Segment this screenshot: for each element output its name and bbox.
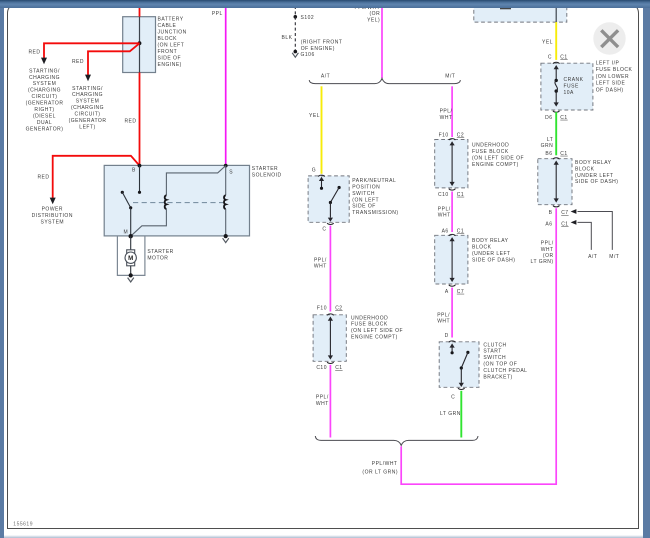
body relay block (M/T) internal double arrow [450,237,455,241]
svg-text:A6: A6 [545,221,552,227]
svg-text:CLUTCH: CLUTCH [483,342,506,348]
svg-text:(UNDER LEFT: (UNDER LEFT [472,251,511,257]
underhood fuse block (M/T) internal double arrow [450,141,455,145]
svg-text:(CHARGING: (CHARGING [71,105,104,111]
svg-text:WHT: WHT [314,264,327,270]
svg-text:ENGINE): ENGINE) [158,62,182,68]
svg-text:UNDERHOOD: UNDERHOOD [472,143,509,149]
svg-text:ENGINE COMPT): ENGINE COMPT) [351,335,398,341]
svg-text:SWITCH: SWITCH [483,355,506,361]
crank fuse box (left I/P fuse block) [541,63,593,110]
svg-text:BLOCK: BLOCK [158,36,178,42]
svg-text:C1: C1 [335,365,342,371]
svg-text:B: B [549,210,553,216]
svg-text:(ON LEFT SIDE OF: (ON LEFT SIDE OF [472,155,524,161]
solenoid terminal B [138,164,142,168]
svg-text:D6: D6 [545,115,552,121]
svg-text:OF ENGINE): OF ENGINE) [301,46,335,52]
svg-text:155619: 155619 [13,522,33,528]
svg-text:WHT: WHT [316,401,329,407]
ground G106 [294,50,298,54]
svg-text:CHARGING: CHARGING [29,75,60,81]
svg-text:M/T: M/T [609,254,619,260]
connector cup A C7 [449,285,456,286]
svg-text:WHT: WHT [541,247,554,253]
svg-text:(OR: (OR [543,253,554,259]
starter solenoid box [104,165,249,236]
svg-text:BLOCK: BLOCK [575,166,595,172]
callout arrow M/T to C7 [578,212,613,250]
svg-text:CLUTCH PEDAL: CLUTCH PEDAL [483,368,527,374]
svg-text:RED: RED [72,59,84,65]
svg-text:BATTERY: BATTERY [158,17,184,23]
svg-text:WHT: WHT [440,115,453,121]
underhood fuse block box (M/T column) [435,140,468,188]
svg-text:(UNDER LEFT: (UNDER LEFT [575,173,614,179]
wire PPL/WHT underhood fuse block to body relay block [451,192,453,233]
svg-text:WHT: WHT [438,213,451,219]
svg-text:G106: G106 [301,52,315,58]
svg-text:SOLENOID: SOLENOID [252,172,282,178]
park/neutral switch internals [321,180,323,188]
starter motor M1 [125,250,136,266]
svg-text:(OR: (OR [370,11,381,17]
svg-text:C2: C2 [335,305,342,311]
connector cup C clutch switch [458,388,465,389]
svg-text:C1: C1 [560,54,567,60]
svg-text:LEFT): LEFT) [79,125,95,131]
svg-text:YEL: YEL [309,113,320,119]
svg-text:PPL/WHT: PPL/WHT [372,461,398,467]
svg-text:M/T: M/T [445,73,455,79]
top right block (cut off at top) [474,2,567,22]
underhood fuse block (A/T) internal double arrow [328,317,333,321]
connector cap F10 C2 (M/T) [449,139,456,140]
svg-text:FUSE: FUSE [564,84,580,90]
svg-text:C: C [451,394,455,400]
body relay block box (M/T column) [435,235,468,284]
wire RED branch 2 to starting/charging system (generator left) [88,43,140,75]
wire PPL/WHT M/T branch to underhood fuse block [451,86,453,137]
svg-text:C: C [548,54,552,60]
svg-text:(ON LEFT: (ON LEFT [158,43,185,49]
svg-text:C7: C7 [561,210,568,216]
svg-text:B: B [132,168,136,174]
connector cap D clutch switch [449,341,456,342]
crank fuse 10A element [555,68,557,81]
svg-text:PPL: PPL [212,11,223,17]
svg-text:(GENERATOR: (GENERATOR [26,101,64,107]
svg-text:C1: C1 [560,115,567,121]
svg-text:JUNCTION: JUNCTION [158,30,187,36]
svg-text:DUAL: DUAL [37,120,52,126]
svg-text:D: D [445,333,449,339]
wire PPL/WHT body relay block to clutch start switch [451,288,453,338]
solenoid terminal S [224,164,228,168]
svg-text:LEFT SIDE: LEFT SIDE [596,81,626,87]
wire PPL to solenoid S [225,6,227,166]
svg-text:START: START [483,349,501,355]
connector cap at G park/neutral [318,175,325,176]
svg-text:S: S [229,169,233,175]
underhood fuse block box (A/T column) [313,315,346,362]
svg-text:GENERATOR): GENERATOR) [26,126,64,132]
wire through junction block (dark) [139,17,141,73]
wire BLK dashed to G106 [294,6,296,51]
svg-text:POSITION: POSITION [352,184,380,190]
svg-text:BLOCK: BLOCK [472,244,492,250]
svg-text:CHARGING: CHARGING [72,92,103,98]
svg-text:PPL/: PPL/ [440,109,453,115]
svg-text:DISTRIBUTION: DISTRIBUTION [32,213,73,219]
svg-text:BRACKET): BRACKET) [483,375,512,381]
coil pull-in winding [224,195,226,209]
svg-text:C2: C2 [457,133,464,139]
svg-text:(GENERATOR: (GENERATOR [69,118,107,124]
connector cup at C park/neutral [327,223,334,224]
brace split A/T-M/T [309,78,460,83]
svg-text:10A: 10A [564,90,575,96]
svg-text:SYSTEM: SYSTEM [76,99,100,105]
svg-text:C: C [322,227,326,233]
wire YEL top right block to crank fuse [555,22,557,60]
connector cup D6 C1 [553,111,560,112]
svg-text:MOTOR: MOTOR [147,256,168,262]
svg-text:YEL): YEL) [367,17,380,23]
connector cap A6 C1 [449,234,456,235]
solenoid plunger dashed link [133,202,224,204]
ground at solenoid S winding [224,234,228,238]
svg-text:A: A [445,289,449,295]
solenoid pull-in winding wire [225,166,227,196]
wire RED power distribution branch from solenoid B [53,156,140,198]
svg-text:F10: F10 [317,305,327,311]
svg-text:STARTER: STARTER [252,166,278,172]
ground at starter motor [129,273,133,277]
wire M terminal to starter motor [130,236,132,250]
connector cap B6 C1 body relay [553,158,560,159]
svg-text:(DIESEL: (DIESEL [33,113,56,119]
svg-text:LT GRN): LT GRN) [531,259,554,265]
splice S102 [294,15,298,19]
wire through top right block (dark) [555,6,557,22]
svg-text:PPL/: PPL/ [316,394,329,400]
svg-text:UNDERHOOD: UNDERHOOD [351,315,388,321]
svg-text:GRN: GRN [541,143,554,149]
wire PPL/WHT park/neutral to underhood fuse block [329,226,331,312]
svg-text:POWER: POWER [42,207,63,213]
svg-text:SIDE OF DASH): SIDE OF DASH) [472,257,515,263]
svg-text:STARTER: STARTER [147,249,173,255]
svg-text:C1: C1 [457,228,464,234]
svg-text:BODY RELAY: BODY RELAY [575,160,612,166]
svg-text:FRONT: FRONT [158,49,178,55]
bottom brace joining A/T and M/T paths [315,436,478,445]
svg-text:SIDE OF: SIDE OF [158,55,182,61]
arrowhead branch 1 [41,58,47,65]
svg-text:G: G [312,168,316,174]
connector cup C10 C1 [327,362,334,363]
svg-text:(RIGHT FRONT: (RIGHT FRONT [301,39,343,45]
svg-text:CRANK: CRANK [564,77,584,83]
svg-text:A6: A6 [442,228,449,234]
svg-text:SYSTEM: SYSTEM [33,81,57,87]
wire starter motor to ground [130,266,132,276]
body relay block (right) internal double arrow [554,161,559,165]
wire PPL/WHT underhood fuse block to bottom brace [329,365,331,438]
wire RED branch 1 to starting/charging system (generator right) [44,43,140,58]
body relay block box (right column) [538,159,572,205]
svg-text:WHT: WHT [437,319,450,325]
junction dot in battery cable junction block [138,41,142,45]
svg-text:SIDE OF DASH): SIDE OF DASH) [575,179,618,185]
svg-text:PPL/: PPL/ [541,241,554,247]
svg-text:C10: C10 [438,192,449,198]
svg-text:SWITCH: SWITCH [352,191,375,197]
wire RED junction block to starter solenoid B [139,73,141,166]
wire PPL/WHT (OR YEL) center top [381,6,383,78]
svg-text:(CHARGING: (CHARGING [28,88,61,94]
svg-text:ENGINE COMPT): ENGINE COMPT) [472,162,519,168]
svg-text:FUSE BLOCK: FUSE BLOCK [351,322,388,328]
solenoid hold-in winding wire [166,166,225,196]
connector cap C C1 crank fuse [553,62,560,63]
svg-text:A/T: A/T [321,73,330,79]
svg-text:PPL/: PPL/ [437,313,450,319]
svg-text:C1: C1 [457,192,464,198]
svg-text:YEL: YEL [542,39,553,45]
svg-text:C10: C10 [316,365,327,371]
svg-text:LEFT I/P: LEFT I/P [596,60,620,66]
solenoid switch blade [121,191,124,194]
svg-text:LT: LT [547,137,553,143]
svg-text:RED: RED [37,174,49,180]
clutch start switch box [439,342,479,388]
connector cup B C7 [553,206,560,207]
svg-text:(ON TOP OF: (ON TOP OF [483,362,517,368]
svg-text:SYSTEM: SYSTEM [41,220,65,226]
wire RED battery feed vertical (top to junction block) [139,6,141,17]
svg-text:PPL/: PPL/ [438,206,451,212]
svg-text:(OR LT GRN): (OR LT GRN) [362,469,398,475]
svg-text:RED: RED [28,50,40,56]
svg-text:CIRCUIT): CIRCUIT) [75,112,101,118]
svg-text:PPL/: PPL/ [314,258,327,264]
svg-text:BODY RELAY: BODY RELAY [472,238,509,244]
svg-text:OF DASH): OF DASH) [596,88,624,94]
svg-text:C7: C7 [457,289,464,295]
svg-text:M: M [128,255,133,262]
coil hold-in winding [165,195,167,209]
svg-text:M: M [124,230,129,236]
svg-text:CABLE: CABLE [158,23,177,29]
wire LT GRN crank fuse to body relay block [555,112,557,155]
svg-text:A/T: A/T [588,254,597,260]
svg-text:RIGHT): RIGHT) [34,107,54,113]
svg-text:LT GRN: LT GRN [440,411,461,417]
svg-text:(ON LEFT: (ON LEFT [352,197,379,203]
battery cable junction block [123,17,156,73]
connector cup C10 C1 (M/T) [449,189,456,190]
wire PPL/WHT (OR LT GRN) bottom run to right column [401,208,556,484]
svg-text:BLK: BLK [282,35,293,41]
svg-text:S102: S102 [301,15,315,21]
connector cap F10 C2 [327,314,334,315]
svg-text:SIDE OF: SIDE OF [352,204,376,210]
svg-text:FUSE BLOCK: FUSE BLOCK [596,67,633,73]
starter motor case bracket [117,236,144,275]
svg-text:PARK/NEUTRAL: PARK/NEUTRAL [352,178,396,184]
svg-text:STARTING/: STARTING/ [72,86,103,92]
svg-text:C1: C1 [560,151,567,157]
svg-text:CIRCUIT): CIRCUIT) [32,94,58,100]
svg-text:FUSE BLOCK: FUSE BLOCK [472,149,509,155]
svg-text:(ON LEFT SIDE OF: (ON LEFT SIDE OF [351,328,403,334]
svg-text:TRANSMISSION): TRANSMISSION) [352,210,398,216]
svg-text:B6: B6 [545,151,552,157]
arrowhead power distribution [50,198,56,205]
wire YEL A/T branch to park/neutral switch [321,86,323,174]
svg-text:STARTING/: STARTING/ [29,68,60,74]
callout arrow A/T to C1 [578,222,592,250]
svg-text:RED: RED [124,119,136,125]
clutch start switch internals [451,347,453,353]
svg-text:(ON LOWER: (ON LOWER [596,74,629,80]
solenoid terminal M junction [129,234,133,238]
svg-text:C1: C1 [561,221,568,227]
wire LT GRN clutch switch to bottom brace [460,391,462,438]
close button [593,22,625,54]
arrowhead branch 2 [85,75,91,82]
svg-text:F10: F10 [439,133,449,139]
park/neutral position switch box [308,176,349,222]
